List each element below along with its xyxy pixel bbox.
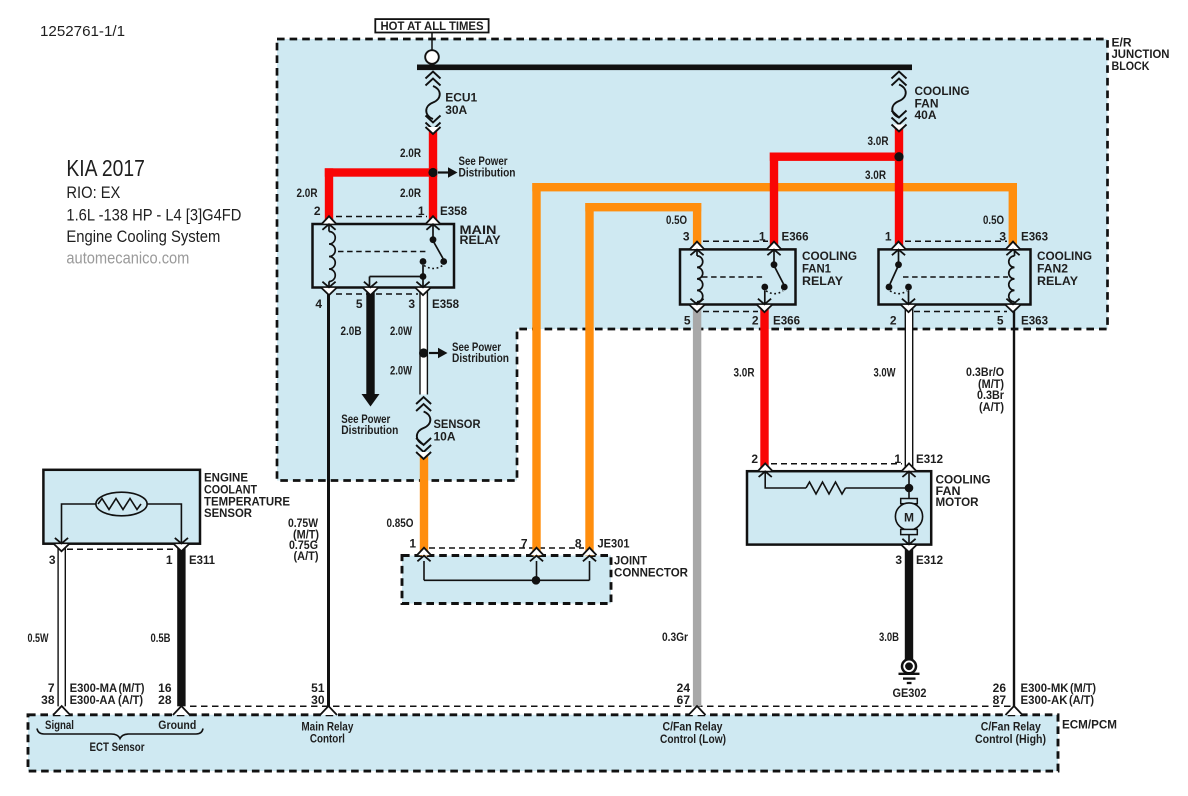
junction node in motor — [905, 484, 914, 493]
svg-text:1.6L -138 HP - L4 [3]G4FD: 1.6L -138 HP - L4 [3]G4FD — [66, 206, 241, 225]
svg-text:RELAY: RELAY — [802, 274, 843, 288]
svg-text:4: 4 — [315, 297, 322, 311]
svg-text:ECU1: ECU1 — [445, 90, 477, 104]
ECM/PCM cyan box — [28, 715, 1058, 771]
svg-text:Distribution: Distribution — [452, 351, 509, 365]
svg-text:(A/T): (A/T) — [1069, 693, 1094, 707]
svg-text:1: 1 — [894, 452, 901, 466]
fan2 relay pin terminals — [892, 242, 906, 256]
svg-text:GE302: GE302 — [893, 686, 927, 700]
notch at 3.0R top — [892, 125, 907, 132]
motor M circle — [895, 503, 922, 530]
notch at 0.85O top — [416, 452, 431, 459]
ECM pin function labels — [45, 718, 1046, 754]
joint connector JE301 box — [402, 556, 611, 604]
wire 3.0W from pin 2 E363 to motor pin 1 — [905, 305, 914, 472]
svg-text:2.0W: 2.0W — [390, 364, 413, 378]
thin dashed connector line E312 motor top — [771, 463, 902, 465]
thin dashed connector line E311 — [67, 548, 175, 550]
ECM entry terminals — [53, 706, 70, 715]
fan1 relay internal dashed line — [702, 276, 764, 278]
component names — [204, 223, 1117, 732]
fuse ECU1 30A — [426, 72, 441, 130]
motor brush bottom — [901, 529, 918, 534]
svg-text:40A: 40A — [915, 108, 937, 122]
svg-text:30A: 30A — [445, 103, 467, 117]
svg-text:E300-AK: E300-AK — [1021, 693, 1068, 707]
main relay internal dashed line — [338, 251, 428, 253]
svg-text:10A: 10A — [434, 430, 456, 444]
svg-text:Control (High): Control (High) — [975, 732, 1046, 746]
svg-text:RELAY: RELAY — [460, 233, 501, 247]
wire 0.5O horizontal lower (to FAN1 relay) — [585, 203, 701, 211]
node circle on bus bar — [425, 50, 439, 64]
svg-text:E366: E366 — [773, 313, 800, 327]
svg-text:1252761-1/1: 1252761-1/1 — [40, 24, 125, 40]
svg-text:2: 2 — [752, 313, 759, 327]
svg-text:3.0R: 3.0R — [734, 365, 755, 379]
COOLING FAN MOTOR box E312 — [747, 471, 931, 544]
svg-text:ECM/PCM: ECM/PCM — [1062, 717, 1117, 731]
svg-text:E358: E358 — [432, 297, 459, 311]
relay E358 MAIN RELAY box — [313, 224, 455, 288]
svg-text:(A/T): (A/T) — [118, 693, 143, 707]
joint connector internal wiring — [423, 561, 425, 580]
main relay switch — [432, 224, 434, 237]
svg-text:E312: E312 — [916, 553, 943, 567]
E/R junction block dashed border — [277, 39, 1108, 481]
svg-text:(A/T): (A/T) — [294, 549, 319, 563]
svg-text:1: 1 — [759, 229, 766, 243]
svg-text:E363: E363 — [1021, 229, 1048, 243]
HOT AT ALL TIMES box — [375, 19, 488, 32]
joint connector pin terminals — [417, 548, 431, 562]
svg-text:0.3Gr: 0.3Gr — [662, 630, 688, 644]
wire 0.5W from E311 pin 3 to ECM — [57, 544, 66, 707]
svg-text:2: 2 — [890, 313, 897, 327]
svg-text:BLOCK: BLOCK — [1112, 59, 1150, 73]
svg-text:5: 5 — [997, 313, 1004, 327]
wire 2.0R left vertical to pin 2 E358 — [325, 168, 333, 224]
notch at 2.0R top — [426, 127, 441, 134]
wire labels — [28, 134, 1005, 645]
thin dashed connector line E366 top — [703, 240, 768, 242]
wire 0.85O from fuse SENSOR to joint connector pin 1 — [420, 452, 428, 556]
svg-text:2.0R: 2.0R — [297, 186, 318, 200]
junction node in joint connector — [532, 576, 541, 585]
svg-text:HOT AT ALL TIMES: HOT AT ALL TIMES — [381, 19, 484, 33]
wire 0.5O vertical to pin 3 E366 — [693, 203, 701, 249]
wire 0.5O vertical to joint connector pin 7 — [532, 183, 540, 556]
svg-text:5: 5 — [356, 297, 363, 311]
svg-text:38: 38 — [41, 693, 55, 707]
motor pin terminals — [758, 463, 772, 477]
svg-text:CONNECTOR: CONNECTOR — [614, 565, 688, 579]
thin dashed connector line E363 bottom — [914, 311, 1007, 313]
ECT thermistor ellipse — [96, 492, 147, 516]
svg-text:RELAY: RELAY — [1037, 274, 1078, 288]
svg-text:0.5O: 0.5O — [983, 213, 1004, 227]
svg-text:7: 7 — [521, 537, 528, 551]
wire 3.0R horizontal to FAN1 relay — [770, 153, 899, 161]
svg-text:1: 1 — [166, 553, 173, 567]
svg-text:3: 3 — [999, 229, 1006, 243]
svg-text:Distribution: Distribution — [341, 423, 398, 437]
ECT resistor zigzag — [98, 499, 141, 510]
svg-text:JE301: JE301 — [598, 537, 630, 551]
svg-text:3.0R: 3.0R — [865, 168, 886, 182]
svg-text:3: 3 — [408, 297, 415, 311]
svg-text:automecanico.com: automecanico.com — [66, 249, 189, 268]
junction node on 3.0R — [894, 152, 903, 161]
wire 0.3Br from pin 5 E363 to ECM — [1013, 305, 1015, 707]
motor internal lead pin2 — [765, 471, 806, 488]
svg-text:2.0W: 2.0W — [390, 324, 413, 338]
relay E366 COOLING FAN1 RELAY box — [680, 249, 796, 304]
svg-text:1: 1 — [885, 229, 892, 243]
fan1 relay switch — [773, 249, 775, 262]
junction node on 2.0W — [419, 348, 428, 357]
see power distribution down arrow — [362, 394, 380, 407]
see power distribution arrow (top) — [438, 171, 449, 173]
E/R junction block cyan region — [277, 39, 1108, 481]
main relay pin terminals — [322, 216, 336, 230]
thin dashed connector line ECM pins — [190, 705, 1013, 707]
svg-text:E363: E363 — [1021, 313, 1048, 327]
svg-text:2.0R: 2.0R — [400, 186, 421, 200]
svg-text:87: 87 — [993, 693, 1007, 707]
svg-text:1: 1 — [418, 204, 425, 218]
connector labels blue — [70, 204, 1069, 707]
bus bar — [417, 65, 912, 71]
wire 0.5O vertical to pin 3 E363 — [1009, 183, 1017, 249]
svg-text:3: 3 — [895, 553, 902, 567]
svg-text:0.85O: 0.85O — [387, 516, 414, 530]
thin dashed connector line E358 top — [336, 216, 427, 218]
fan2 relay internal dashed line — [903, 276, 1008, 278]
wire 3.0R from pin 2 E366 to motor pin 2 — [760, 305, 768, 472]
svg-text:67: 67 — [677, 693, 691, 707]
motor brush top — [901, 499, 918, 504]
wire 3.0R vertical to pin 1 E366 — [770, 153, 778, 250]
svg-text:E358: E358 — [440, 204, 467, 218]
svg-text:Ground: Ground — [158, 718, 196, 732]
thin dashed connector line E358 bottom — [336, 293, 418, 295]
svg-text:(A/T): (A/T) — [979, 400, 1004, 414]
ECT sensor brace — [37, 729, 203, 739]
ECT internal leads — [62, 504, 96, 544]
svg-text:E312: E312 — [916, 452, 943, 466]
svg-text:E300-AA: E300-AA — [70, 693, 116, 707]
see power distribution arrow (mid) — [429, 352, 439, 354]
svg-text:Engine Cooling System: Engine Cooling System — [66, 227, 220, 246]
svg-text:2: 2 — [314, 204, 321, 218]
motor resistor zigzag — [806, 482, 846, 494]
ECT pin terminals — [54, 538, 69, 551]
svg-text:3: 3 — [683, 229, 690, 243]
motor internal lead pin1 — [846, 487, 910, 489]
svg-text:3.0W: 3.0W — [874, 365, 897, 379]
svg-text:30: 30 — [311, 693, 325, 707]
svg-text:3.0B: 3.0B — [879, 630, 899, 644]
fan2 relay coil — [1009, 256, 1015, 302]
wire 2.0R vertical from fuse ECU1 — [429, 127, 437, 224]
wire 3.0R vertical from fuse COOLING FAN — [895, 125, 903, 250]
relay E363 COOLING FAN2 RELAY box — [879, 249, 1031, 304]
svg-text:Contorl: Contorl — [310, 732, 345, 746]
svg-text:1: 1 — [409, 537, 416, 551]
svg-text:KIA 2017: KIA 2017 — [66, 155, 144, 181]
wire 2.0R horizontal — [325, 168, 437, 176]
svg-text:Distribution: Distribution — [459, 166, 516, 180]
svg-text:0.5B: 0.5B — [151, 631, 171, 645]
ground GE302 — [902, 659, 916, 673]
svg-text:Signal: Signal — [45, 718, 74, 732]
svg-text:5: 5 — [684, 313, 691, 327]
svg-text:ECT Sensor: ECT Sensor — [90, 740, 145, 754]
svg-text:2.0R: 2.0R — [400, 146, 421, 160]
svg-text:E366: E366 — [782, 229, 809, 243]
wire 0.5B from E311 pin 1 to ECM — [177, 544, 185, 707]
svg-text:2: 2 — [751, 452, 758, 466]
fan1 relay coil — [697, 256, 703, 302]
svg-text:M: M — [904, 510, 914, 524]
thin dashed connector line E363 top — [905, 240, 1007, 242]
thin dashed connector line JE301 — [429, 547, 584, 549]
fan1 relay pin terminals — [690, 242, 704, 256]
svg-text:SENSOR: SENSOR — [204, 506, 252, 520]
svg-text:0.5O: 0.5O — [666, 213, 687, 227]
svg-text:28: 28 — [158, 693, 172, 707]
wire 3.0B from motor pin 3 to ground GE302 — [905, 545, 913, 660]
svg-text:3: 3 — [49, 553, 56, 567]
wire 0.3Gr from pin 5 E366 to ECM — [693, 305, 701, 707]
svg-text:RIO: EX: RIO: EX — [66, 183, 120, 202]
junction node on 2.0R — [428, 168, 437, 177]
wire main relay control from pin 4 E358 to ECM — [327, 288, 330, 707]
wire 0.5O vertical to joint connector pin 8 — [585, 203, 593, 556]
wire 0.5O horizontal upper (to FAN2 relay) — [532, 183, 1017, 191]
wire 2.0W from pin 3 E358 to fuse SENSOR — [419, 288, 428, 395]
main relay coil — [329, 232, 335, 282]
svg-text:Control (Low): Control (Low) — [660, 732, 726, 746]
svg-text:3.0R: 3.0R — [868, 134, 889, 148]
svg-text:0.5W: 0.5W — [28, 631, 49, 645]
fuse SENSOR 10A — [416, 397, 431, 452]
svg-text:MOTOR: MOTOR — [936, 495, 979, 509]
svg-text:2.0B: 2.0B — [341, 324, 362, 338]
svg-text:E311: E311 — [189, 553, 215, 567]
svg-text:8: 8 — [575, 537, 582, 551]
wire 2.0B from pin 5 E358 — [366, 288, 374, 395]
thin dashed connector line E366 bottom — [703, 311, 758, 313]
fuse COOLING FAN 40A — [892, 72, 907, 125]
fan2 relay switch — [898, 249, 900, 262]
wire from HOT box to bus node — [431, 33, 433, 51]
ENGINE COOLANT TEMPERATURE SENSOR box E311 — [43, 470, 200, 544]
